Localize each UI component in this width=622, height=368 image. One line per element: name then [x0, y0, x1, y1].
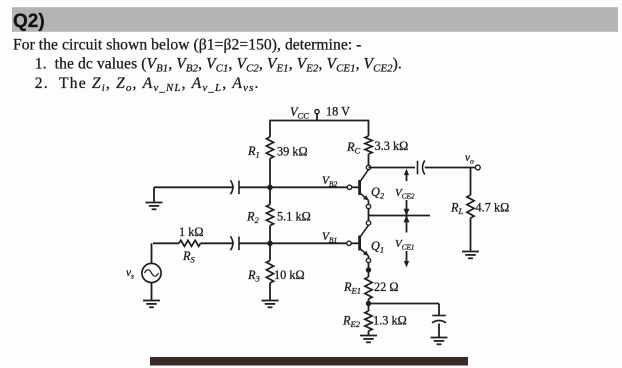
wire measurement tap [369, 215, 431, 217]
wire vs corner to Rs [153, 242, 179, 244]
wire Q2 emitter to node [368, 200, 370, 204]
svg-text:Q2: Q2 [371, 185, 385, 201]
svg-text:vs: vs [126, 267, 134, 281]
svg-text:Q2): Q2) [13, 11, 45, 32]
resistor RC [365, 136, 372, 154]
capacitor C_B1 input bottom [230, 236, 239, 250]
svg-text:VCC: VCC [290, 105, 309, 121]
wire Q1 emitter to node [368, 256, 370, 258]
svg-text:VCE2: VCE2 [395, 187, 415, 201]
ground below vs [143, 301, 160, 308]
ground below R3 [262, 301, 279, 308]
wire vs to ground [151, 283, 153, 300]
svg-text:RS: RS [182, 249, 196, 265]
node Q1 collector (open) [366, 221, 370, 225]
svg-text:RC: RC [346, 140, 361, 156]
arrow VCE2/VCE1 shared X [406, 200, 408, 233]
arrow VCE1 bottom [406, 251, 408, 262]
svg-text:For the circuit shown below (β: For the circuit shown below (β1=β2=150),… [13, 37, 361, 54]
svg-text:3.3 kΩ: 3.3 kΩ [375, 139, 409, 153]
resistor RE2 [365, 311, 372, 331]
svg-text:R3: R3 [247, 268, 260, 284]
wire rail to R1 [269, 121, 271, 138]
transistor Q2 [360, 170, 369, 201]
wire B2 feed [154, 186, 234, 188]
resistor RE1 [365, 277, 372, 299]
ground below bypass capacitor [431, 338, 448, 345]
svg-text:22 Ω: 22 Ω [374, 280, 399, 294]
resistor R2 [266, 205, 273, 226]
wire vs to Rs level [151, 243, 153, 263]
ground below RE2 [360, 336, 377, 343]
resistor RS [179, 240, 201, 246]
wire bypass cap to ground [438, 324, 440, 338]
wire RC to collector node [368, 154, 370, 165]
svg-text:18 V: 18 V [326, 105, 350, 119]
resistor RL [467, 195, 474, 218]
node collector C2 (open) [366, 165, 370, 169]
wire Rs to cap [201, 242, 234, 244]
wire RE1 to RE2 node [368, 299, 370, 311]
bottom dark bar [150, 357, 468, 366]
svg-text:RL: RL [450, 201, 464, 217]
svg-text:1 kΩ: 1 kΩ [179, 225, 204, 239]
svg-text:RE1: RE1 [343, 280, 361, 296]
wire collector to output cap [369, 167, 416, 169]
node Q1 emitter (open) [366, 258, 370, 262]
node junction B2 [267, 185, 272, 190]
svg-text:vo: vo [465, 152, 474, 166]
capacitor C_B2 input top [230, 180, 239, 194]
header gray bar [12, 7, 618, 32]
wire B2 node to R2 [269, 187, 271, 204]
svg-text:Q1: Q1 [371, 239, 384, 255]
wire B1 node to R3 [269, 243, 271, 260]
arrow VCE2 top [404, 169, 409, 176]
svg-text:VB2: VB2 [322, 175, 338, 189]
node base B1 terminal (open) [347, 241, 351, 245]
wire Q1 collector stub [368, 224, 370, 226]
wire top supply rail [269, 120, 369, 122]
node Q2 emitter (open) [366, 204, 370, 208]
resistor R3 [266, 261, 273, 284]
wire R2 to base node B1 [269, 226, 271, 244]
wire RE2 to ground [368, 331, 370, 335]
svg-text:R1: R1 [247, 144, 260, 160]
wire emitter to RE1 [368, 263, 370, 277]
node junction B1 [267, 241, 272, 246]
svg-text:10 kΩ: 10 kΩ [274, 268, 305, 282]
wire gnd stub top-left [153, 187, 155, 202]
svg-text:5.1 kΩ: 5.1 kΩ [277, 210, 311, 224]
ground below RL [462, 252, 479, 259]
wire RE junction to bypass capacitor [369, 303, 440, 305]
resistor R1 [266, 137, 273, 159]
svg-text:RE2: RE2 [342, 314, 361, 330]
wire emitter2 to collector1 [368, 209, 370, 221]
wire rail to RC [368, 121, 370, 137]
wire R3 to ground [269, 283, 271, 300]
svg-text:2. The Zi​, Zo​, Av_NL​, Av_L: 2. The Zi​, Zo​, Av_NL​, Av_L​, Avs​. [35, 75, 260, 94]
capacitor bypass [432, 316, 446, 323]
ground top-left [146, 203, 163, 210]
wire cap to vo [425, 167, 476, 169]
node VCC supply terminal [315, 110, 319, 114]
svg-text:VCE1: VCE1 [395, 238, 415, 252]
svg-text:1.3 kΩ: 1.3 kΩ [373, 314, 407, 328]
svg-text:1. the dc values (VB1​, VB2​,: 1. the dc values (VB1​, VB2​, VC1​, VC2​… [35, 55, 402, 74]
svg-text:VB1: VB1 [322, 231, 337, 245]
node junction RE1/RE2 [366, 301, 371, 306]
wire vo branch down to RL [470, 168, 472, 196]
wire RL to ground [470, 218, 472, 251]
wire R1 to base node B2 [269, 159, 271, 188]
source vs [142, 263, 161, 282]
capacitor C_out [418, 161, 425, 175]
svg-text:4.7 kΩ: 4.7 kΩ [476, 201, 510, 215]
svg-text:39 kΩ: 39 kΩ [277, 145, 308, 159]
node base B2 terminal (open) [347, 185, 351, 189]
svg-text:R2: R2 [246, 210, 260, 226]
node junction above RE1 [366, 267, 371, 272]
node vo terminal (open) [475, 165, 480, 170]
transistor Q1 [360, 225, 369, 256]
